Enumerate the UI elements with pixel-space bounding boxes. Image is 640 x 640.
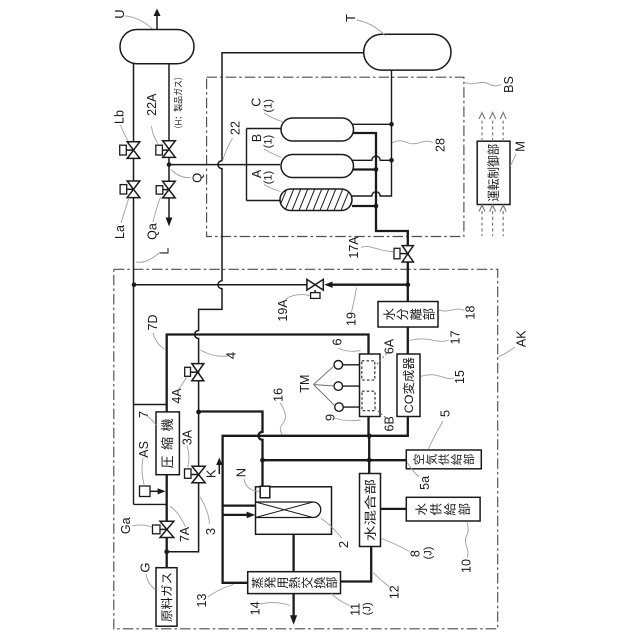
dash-dot enclosure AK (hydrogen production unit) [114,269,498,629]
cylinder B (1) [281,155,354,178]
node: junction B thick port [374,167,379,172]
svg-text:BS: BS [502,76,516,93]
wire: compressor discharge line 7D to sensor unit [167,335,369,436]
svg-text:4: 4 [224,352,239,359]
svg-text:M: M [512,141,527,152]
svg-text:AS: AS [137,441,151,458]
arrow: flow direction K [218,464,220,474]
valve Qa [163,181,176,198]
arrow: condensate outlet 14 [292,594,294,616]
svg-text:16: 16 [271,388,285,402]
svg-text:K: K [203,469,218,478]
svg-text:部: 部 [422,308,437,321]
wire: cylinder C thin port [352,123,392,125]
svg-text:運転制御部: 運転制御部 [486,144,501,202]
svg-text:TM: TM [298,375,312,393]
svg-text:6B: 6B [383,416,397,431]
svg-text:空: 空 [412,454,426,466]
svg-text:水: 水 [415,502,429,515]
node: junction C thin port [389,122,394,127]
arrow: tank U vent [156,15,158,30]
wire: thin manifold from tank T bottom to cylinders [352,70,392,196]
svg-text:15: 15 [453,370,467,384]
wire: compressor bypass branch lower [134,503,167,505]
water separator box 18 (水分離部) [378,302,438,328]
svg-text:22: 22 [229,121,243,135]
svg-text:13: 13 [195,594,209,608]
arrow: flow into valve 19A [324,282,332,288]
node: junction return line / water mixer riser [367,433,372,438]
cylinder C (1) [281,118,354,141]
node: junction line16 x valve pipe [196,410,201,415]
svg-text:水: 水 [383,307,397,320]
svg-text:18: 18 [464,306,478,320]
signal arrows below controller M [479,205,506,236]
svg-text:7D: 7D [146,315,160,331]
svg-text:部: 部 [462,454,476,466]
svg-text:部: 部 [457,503,472,516]
svg-text:Q: Q [189,173,204,183]
node: junction A thick port [374,204,379,209]
valve 4A [192,364,204,381]
wire: compressor bypass branch upper [134,404,167,406]
node: junction air header / water mixer riser [367,458,372,463]
node: junction at separator drop pipe [405,282,410,287]
tank T [364,34,451,70]
wire: cylinder B thin port (hop over thick manifold) [352,156,392,160]
svg-text:28: 28 [434,138,448,152]
wire: line 22 from tank T through valves 4A,3A to raw-gas line (with hops) [167,53,364,552]
svg-text:N: N [234,468,249,477]
svg-text:22A: 22A [145,93,159,116]
svg-text:分: 分 [396,308,410,321]
svg-text:Qa: Qa [146,223,160,240]
svg-text:U: U [112,9,127,18]
wire: separator to CO converter [407,327,409,354]
node: junction line16/air header [260,458,265,463]
valve Lb [127,142,140,159]
svg-text:T: T [343,14,358,22]
svg-text:(1): (1) [263,99,275,112]
wire: compressor suction from raw gas [166,475,168,568]
water supply box 10 (水供給部) [406,497,480,521]
svg-text:8: 8 [409,550,423,557]
svg-text:5a: 5a [418,476,432,490]
wire: line 19 thick part to separator drop pipe [332,284,408,286]
valve La [127,181,140,198]
svg-text:圧縮機: 圧縮機 [160,418,175,468]
controller box M (運転制御部) [477,141,510,204]
wire: line Q (junction to cylinder manifold) [169,164,280,166]
burner tube inside vessel 2 [256,502,321,518]
tank U [120,30,194,64]
wire: cylinder B thick port [352,168,376,170]
wire: left manifold of cylinders [247,129,281,201]
nozzle N square [260,486,270,498]
svg-text:19: 19 [345,312,359,326]
node: junction Q [167,162,172,167]
wire: cylinder A thick port [352,205,376,207]
wire: vessel 2 bottom to evaporation heat exchanger [292,534,294,571]
CO converter box 15 (CO変成器) [397,354,420,417]
thermometer unit box 6 [360,354,381,417]
svg-text:6A: 6A [383,338,397,354]
compressor box 7 (圧縮機) [156,412,179,475]
svg-text:7A: 7A [178,526,192,542]
svg-text:9: 9 [322,414,337,421]
signal arrows above controller M [479,113,506,142]
svg-text:供: 供 [429,503,443,516]
cylinder A (1), hatched [280,189,352,211]
valve 7A [160,521,174,537]
node: junction raw gas branch [164,549,169,554]
svg-text:部: 部 [324,577,339,589]
sensor AS square [140,486,151,497]
svg-text:3: 3 [203,528,218,535]
wire: air feed header from line 16 to air supply unit [263,459,407,461]
svg-text:(1): (1) [263,171,275,184]
svg-text:G: G [138,562,153,572]
svg-text:給: 給 [449,453,463,465]
svg-text:2: 2 [336,541,351,548]
wire: water supply connector [381,508,407,510]
svg-text:La: La [113,225,127,239]
wire: pipe L (tank U left line with valves Lb, La) [133,64,135,405]
evaporation heat exchanger box 13 (蒸発用熱交換部) [248,572,341,594]
wire: pipe 22A/Qa (tank U right line) [168,64,170,219]
dash-dot enclosure BS (tank station) [207,77,464,236]
svg-text:(J): (J) [362,602,374,615]
svg-text:原料ガス: 原料ガス [160,572,174,622]
svg-text:6: 6 [329,338,344,345]
sensor 6B dashed square [362,391,375,411]
sensor 6A dashed square [362,361,375,380]
valve 19A [307,279,323,290]
wire: compressor bypass branch vertical [133,405,135,505]
svg-text:水混合部: 水混合部 [362,479,377,541]
svg-text:17A: 17A [347,236,361,259]
water mixer box 8 (水混合部) [360,474,381,547]
svg-text:3A: 3A [181,429,195,445]
node: junction B thin port [389,158,394,163]
wire: return line from CO converter to vessel 2 [223,417,408,583]
wire: water mixer riser [368,436,370,474]
valve 17A [402,246,413,262]
svg-text:12: 12 [387,585,401,599]
wire: stub with arrow into vessel 2 [223,514,248,516]
vessel 2 (reformer) [256,487,332,535]
leader lines TM fan [314,366,335,405]
wire: line 16 from valve-4 junction to nozzle N (hop over return line) [199,412,263,487]
svg-text:気: 気 [424,453,438,465]
air supply box 5 (空気供給部) [406,450,481,469]
svg-text:離: 離 [409,307,423,320]
node: junction on pipe L [132,282,137,287]
wire: thick manifold from cylinders to valve 17A [352,133,408,302]
svg-text:（H：製品ガス）: （H：製品ガス） [173,72,184,133]
arrow: vent outlet Qa [166,218,173,227]
wire: stub into vessel tube [223,504,256,506]
svg-text:Ga: Ga [119,517,133,534]
wire: water mixer to heat exchanger line 12 [341,547,372,582]
svg-text:19A: 19A [276,299,290,322]
raw gas source box G (原料ガス) [156,568,177,627]
svg-text:供: 供 [437,453,451,465]
svg-text:17: 17 [449,331,463,345]
valve 22A [163,141,176,158]
svg-text:給: 給 [444,502,458,515]
svg-text:(J): (J) [423,547,435,560]
wire: line 19 thin part from pipe L [134,284,307,286]
svg-text:AK: AK [515,330,529,347]
svg-text:(1): (1) [263,135,275,148]
valve 3A (K) [192,466,205,483]
svg-text:4A: 4A [170,388,184,404]
svg-text:Lb: Lb [113,110,127,124]
svg-text:10: 10 [460,559,474,573]
svg-text:CO変成器: CO変成器 [401,357,416,413]
thermometer circles TM [334,361,343,370]
svg-text:5: 5 [438,410,453,417]
